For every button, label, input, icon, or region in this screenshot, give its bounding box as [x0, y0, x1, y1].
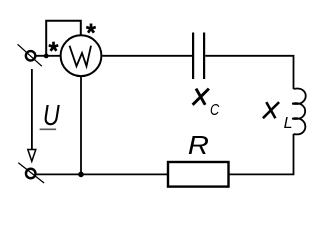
svg-text:R: R — [188, 130, 209, 159]
wire resistor to node 2 — [36, 173, 168, 175]
arrowhead of voltage U — [28, 150, 36, 162]
wire voltage arrow stem — [31, 69, 33, 150]
polarity mark (asterisk) at voltage coil — [86, 24, 96, 33]
node 2 (junction dot) — [78, 172, 84, 178]
wire wattmeter to capacitor — [102, 55, 192, 57]
polarity mark (asterisk) at current coil — [49, 42, 59, 51]
resistor R — [168, 162, 229, 187]
node 1 (junction dot) — [44, 54, 49, 59]
wire from terminal A to node 1 — [35, 55, 60, 57]
label XL — [263, 102, 293, 132]
wire voltage-coil loop of wattmeter — [46, 21, 81, 56]
svg-text:L: L — [284, 115, 293, 132]
wire inductor to bottom-right corner — [229, 134, 294, 174]
label R — [188, 130, 209, 159]
svg-text:C: C — [210, 102, 220, 120]
svg-text:U: U — [43, 98, 61, 131]
wire capacitor to top-right corner — [205, 56, 293, 89]
label XC — [193, 89, 220, 120]
terminal A (top-left input) — [18, 44, 42, 66]
label U (underlined) — [40, 98, 61, 131]
inductor XL — [292, 89, 306, 135]
wire wattmeter current coil to bottom wire — [80, 76, 82, 174]
wattmeter W1 — [61, 35, 102, 76]
terminal B (bottom-left input) — [18, 163, 44, 183]
capacitor XC — [193, 33, 204, 80]
